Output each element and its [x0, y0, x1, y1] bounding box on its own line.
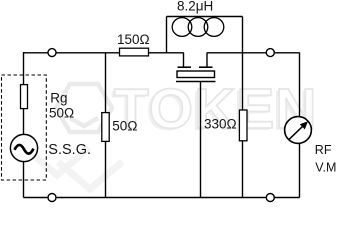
watermark hexagon logo	[56, 84, 112, 132]
resistor 50ohm shunt	[102, 113, 109, 142]
wire DUT left lead	[183, 53, 185, 67]
wire DUT bottom lead	[200, 82, 202, 198]
svg-text:330Ω: 330Ω	[204, 117, 237, 132]
wire inductor top	[167, 16, 243, 18]
source sine symbol	[15, 145, 34, 154]
DUT left plate	[178, 66, 192, 68]
svg-text:150Ω: 150Ω	[117, 32, 150, 47]
source S.S.G. circle	[10, 134, 37, 161]
wire DUT right lead	[206, 53, 208, 67]
DUT bottom plate	[176, 81, 216, 83]
dashed box around source	[2, 75, 47, 180]
meter needle	[289, 126, 303, 140]
svg-text:V.M: V.M	[315, 161, 336, 175]
wire bottom horizontal	[24, 197, 300, 199]
resistor Rg	[21, 85, 28, 109]
wire left branch lower	[23, 162, 25, 198]
wire 50ohm branch lower	[105, 141, 107, 197]
node circle bottom left	[48, 194, 56, 202]
meter RF V.M circle	[285, 117, 312, 144]
resistor 330ohm	[239, 110, 247, 141]
svg-text:RF: RF	[315, 143, 332, 157]
svg-text:8.2μH: 8.2μH	[177, 0, 213, 13]
wire 50ohm branch upper	[105, 53, 107, 113]
wire left branch middle	[23, 109, 25, 135]
svg-text:50Ω: 50Ω	[112, 118, 137, 133]
wire meter branch upper	[299, 53, 301, 117]
svg-text:S.S.G.: S.S.G.	[48, 142, 91, 158]
svg-text:Rg: Rg	[50, 90, 67, 105]
wire top left horizontal	[24, 52, 184, 54]
DUT body	[177, 71, 215, 78]
wire meter branch lower	[299, 143, 301, 197]
wire left branch upper	[23, 52, 25, 85]
node circle top right	[266, 49, 274, 57]
wire 330 branch lower	[242, 141, 244, 198]
wire top right horizontal	[207, 52, 300, 54]
node circle top left	[48, 49, 56, 57]
node circle bottom right	[266, 194, 274, 202]
resistor 150ohm	[120, 48, 149, 56]
watermark faint lower-left chevrons	[25, 148, 122, 189]
DUT right plate	[199, 66, 213, 68]
wire inductor right leg / 330 branch upper	[242, 17, 244, 111]
wire inductor left leg	[166, 17, 168, 53]
meter needle arrowhead	[300, 121, 308, 129]
inductor L1 8.2uH loops	[172, 18, 224, 37]
svg-text:50Ω: 50Ω	[49, 105, 74, 120]
